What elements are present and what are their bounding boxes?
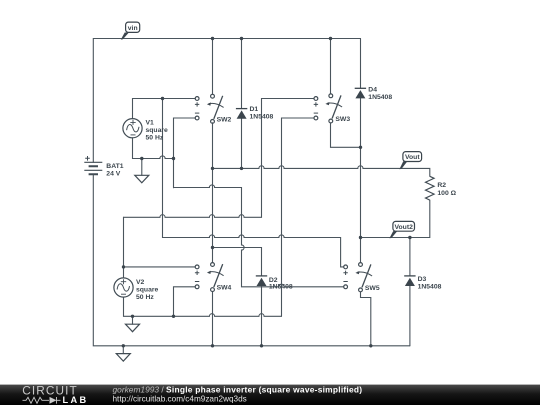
- svg-text:1N5408: 1N5408: [368, 94, 392, 101]
- node vin label: [121, 22, 140, 39]
- ground bottom rail: [116, 354, 130, 362]
- wire bottom rail and left rail lower: [93, 174, 410, 345]
- svg-text:square: square: [146, 127, 169, 134]
- svg-text:D1: D1: [250, 106, 259, 113]
- svg-text:vin: vin: [128, 25, 138, 32]
- svg-text:24 V: 24 V: [106, 170, 120, 177]
- node Vout2 label: [389, 221, 414, 238]
- junction SW5 bottom at rail: [369, 344, 372, 347]
- wire SW2 top stub from vin rail: [212, 39, 214, 95]
- junction ground stem bottom rail: [122, 344, 125, 347]
- svg-text:100 Ω: 100 Ω: [437, 190, 456, 197]
- switch SW4: [195, 263, 232, 292]
- svg-text:square: square: [136, 287, 159, 294]
- wire SW3 top stub from vin rail: [330, 39, 332, 94]
- svg-text:BAT1: BAT1: [106, 163, 123, 170]
- wire SW4 bottom to bottom rail: [212, 292, 214, 346]
- voltage source V2: [114, 278, 159, 301]
- switch SW3: [309, 94, 350, 123]
- wire V1 plus branch to SW5 control plus: [163, 99, 344, 267]
- svg-text:1N5408: 1N5408: [250, 113, 274, 120]
- wire D1 anode to Vout node: [241, 119, 243, 169]
- junction V2 plus: [122, 265, 125, 268]
- ground under V2: [126, 324, 140, 332]
- switch SW5: [343, 263, 379, 292]
- junction ground stem V2: [131, 315, 134, 318]
- wire SW2 bottom through Vout junction to SW4 top: [212, 123, 214, 263]
- wire D3 cathode stub from Vout2: [409, 238, 411, 276]
- diode D2: [256, 276, 293, 291]
- wire V2 plus to SW4 control plus: [124, 266, 195, 268]
- wire D2 anode down to bottom rail: [261, 286, 263, 346]
- svg-text:Vout: Vout: [405, 154, 420, 161]
- junction D2 anode at rail: [260, 344, 263, 347]
- wire D4 cathode stub from vin rail: [360, 39, 362, 89]
- svg-text:SW4: SW4: [217, 285, 232, 292]
- wire vin top rail and left rail upper: [93, 39, 360, 163]
- junction V1 plus branch: [161, 97, 164, 100]
- voltage source V1: [123, 119, 168, 142]
- svg-text:1N5408: 1N5408: [418, 284, 442, 291]
- CircuitLab logo wordmark: [22, 384, 88, 405]
- battery BAT1: [84, 156, 123, 177]
- junction Vout at D1: [240, 167, 243, 170]
- svg-text:V2: V2: [136, 279, 145, 286]
- node Vout label: [399, 152, 421, 170]
- wire D1 cathode stub from vin rail: [241, 39, 243, 109]
- diode D3: [404, 276, 441, 291]
- junction vin rail at D1: [240, 37, 243, 40]
- wire V2 minus rail: [124, 297, 282, 316]
- svg-text:Vout2: Vout2: [395, 224, 414, 231]
- svg-text:50 Hz: 50 Hz: [146, 134, 164, 141]
- wire SW2 control minus to V1 minus node: [174, 118, 196, 188]
- wire D4 anode down through Vout crossing to SW5 top: [360, 98, 362, 262]
- wire V2 plus wire up to SW3 control plus: [124, 99, 315, 218]
- junction Vout2 at SW5 leg: [359, 236, 362, 239]
- wire Vout node horizontal to R2 top: [213, 166, 430, 177]
- junction vin rail at SW2: [211, 37, 214, 40]
- wire ground stem under V2: [132, 316, 134, 324]
- svg-text:V1: V1: [146, 119, 155, 126]
- wire SW5 bottom to bottom rail: [361, 292, 371, 346]
- wire R2 bottom to Vout2 node: [410, 200, 430, 237]
- junction Vout2 at D3: [408, 236, 411, 239]
- switch SW2: [191, 94, 232, 123]
- wire ground stem under V1: [141, 159, 143, 176]
- footer bar: [0, 385, 540, 405]
- junction SW4 top node: [211, 246, 214, 249]
- wire V1 minus terminal to ground node: [133, 138, 174, 159]
- ground under V1: [135, 175, 149, 183]
- svg-text:D3: D3: [418, 276, 427, 283]
- svg-text:50 Hz: 50 Hz: [136, 294, 154, 301]
- svg-text:http://circuitlab.com/c4m9zan2: http://circuitlab.com/c4m9zan2wq3ds: [113, 395, 247, 404]
- junction Vout at SW2 leg: [211, 167, 214, 170]
- wire D3 anode to bottom rail: [409, 286, 411, 346]
- wire SW3 control minus down to V2 minus rail: [282, 118, 315, 316]
- wire SW3 bottom to D4 junction: [331, 123, 361, 147]
- svg-text:gorkem1993 / Single phase inve: gorkem1993 / Single phase inverter (squa…: [113, 384, 363, 394]
- svg-text:D4: D4: [368, 86, 377, 93]
- wire SW4 top node to D2 cathode: [213, 248, 262, 276]
- junction SW3 bottom at D4: [359, 146, 362, 149]
- svg-text:R2: R2: [437, 182, 446, 189]
- resistor R2: [426, 176, 457, 200]
- svg-text:SW3: SW3: [335, 116, 350, 123]
- svg-text:LAB: LAB: [63, 395, 89, 405]
- wire V1 minus branch across to SW5 control minus: [174, 185, 344, 287]
- svg-text:SW2: SW2: [217, 116, 232, 123]
- wire ground stem bottom rail: [122, 346, 124, 354]
- junction SW4 minus at V2 rail: [172, 315, 175, 318]
- svg-text:SW5: SW5: [365, 285, 380, 292]
- wire V2 top vertical: [123, 217, 125, 278]
- junction V1 minus node: [172, 157, 175, 160]
- diode D1: [236, 106, 274, 121]
- junction ground stem V1: [140, 157, 143, 160]
- junction SW4 bottom at rail: [211, 344, 214, 347]
- diode D4: [355, 86, 393, 101]
- junction vin rail at SW3: [329, 37, 332, 40]
- wire SW4 control minus to V2 minus rail: [174, 287, 195, 317]
- footer title text: [113, 384, 363, 403]
- wire Vout2 node horizontal: [361, 237, 410, 239]
- svg-text:1N5408: 1N5408: [269, 284, 293, 291]
- wire V1 plus terminal to SW2 control plus: [133, 99, 196, 119]
